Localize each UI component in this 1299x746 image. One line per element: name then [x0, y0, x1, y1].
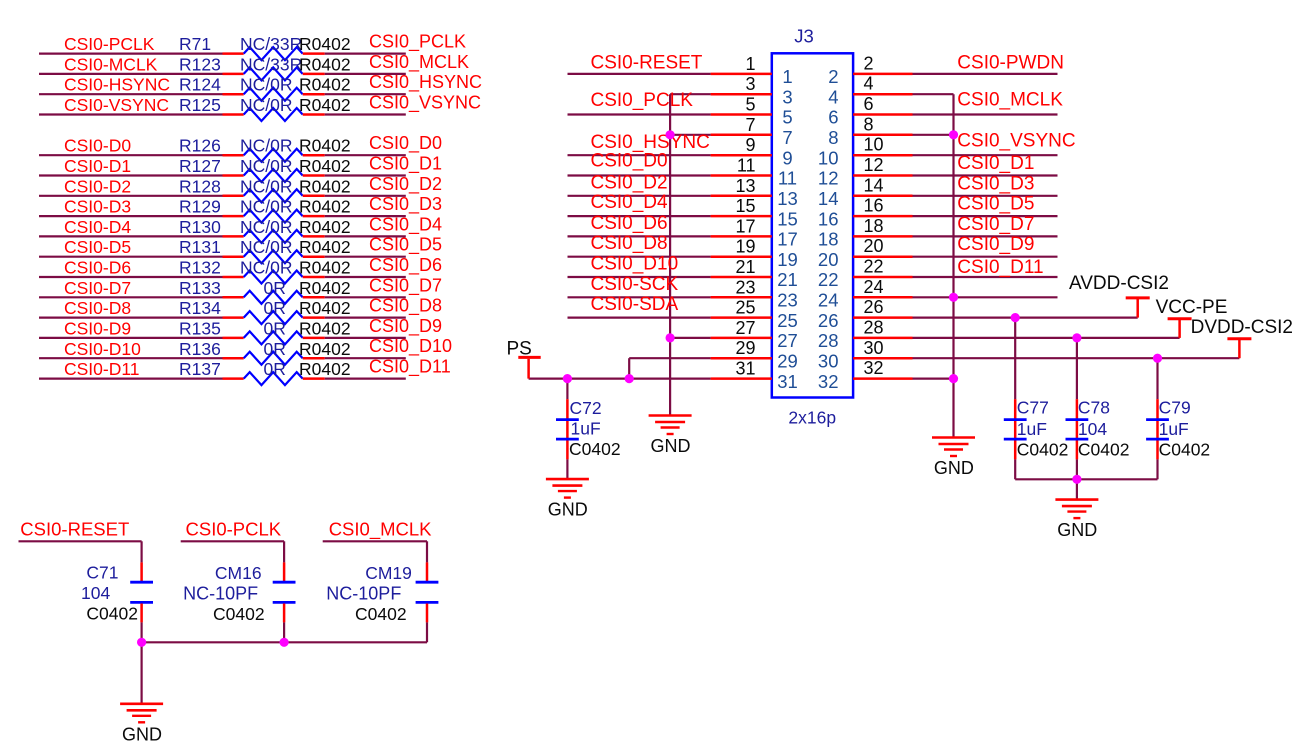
- svg-text:CSI0_D0: CSI0_D0: [369, 133, 442, 154]
- svg-text:NC/0R: NC/0R: [240, 95, 293, 115]
- svg-text:NC/0R: NC/0R: [240, 136, 293, 156]
- svg-text:29: 29: [735, 338, 755, 358]
- svg-text:CSI0-SDA: CSI0-SDA: [591, 294, 679, 315]
- svg-text:13: 13: [735, 176, 755, 196]
- svg-text:R129: R129: [179, 197, 221, 217]
- svg-text:6: 6: [864, 94, 874, 114]
- svg-text:CSI0-D8: CSI0-D8: [64, 298, 131, 318]
- svg-text:CSI0-HSYNC: CSI0-HSYNC: [64, 75, 170, 95]
- svg-text:CSI0-MCLK: CSI0-MCLK: [64, 54, 158, 74]
- svg-text:9: 9: [745, 135, 755, 155]
- svg-text:18: 18: [864, 216, 884, 236]
- svg-text:R0402: R0402: [299, 339, 351, 359]
- svg-text:29: 29: [777, 350, 798, 371]
- svg-text:CSI0_D7: CSI0_D7: [957, 214, 1034, 235]
- svg-text:CM16: CM16: [215, 563, 262, 583]
- svg-text:19: 19: [777, 249, 798, 270]
- svg-text:22: 22: [864, 257, 884, 277]
- svg-text:25: 25: [735, 298, 755, 318]
- svg-text:C0402: C0402: [569, 439, 621, 459]
- svg-text:R0402: R0402: [299, 237, 351, 257]
- svg-text:CSI0-PWDN: CSI0-PWDN: [957, 52, 1064, 73]
- svg-text:CSI0_D5: CSI0_D5: [369, 235, 442, 256]
- svg-text:NC/0R: NC/0R: [240, 237, 293, 257]
- svg-text:17: 17: [735, 216, 755, 236]
- svg-text:27: 27: [735, 318, 755, 338]
- svg-text:CSI0-D1: CSI0-D1: [64, 156, 131, 176]
- svg-text:R0402: R0402: [299, 298, 351, 318]
- svg-text:R130: R130: [179, 217, 221, 237]
- svg-text:27: 27: [777, 330, 798, 351]
- svg-text:12: 12: [864, 155, 884, 175]
- svg-text:CSI0-PCLK: CSI0-PCLK: [64, 34, 155, 54]
- svg-text:14: 14: [818, 188, 839, 209]
- svg-text:R128: R128: [179, 176, 221, 196]
- svg-text:1uF: 1uF: [571, 419, 601, 439]
- svg-text:30: 30: [818, 350, 839, 371]
- svg-text:C79: C79: [1159, 398, 1191, 418]
- svg-text:CSI0-D4: CSI0-D4: [64, 217, 131, 237]
- svg-text:VCC-PE: VCC-PE: [1156, 297, 1228, 318]
- svg-text:AVDD-CSI2: AVDD-CSI2: [1069, 273, 1169, 294]
- svg-text:GND: GND: [651, 436, 691, 456]
- svg-text:R0402: R0402: [299, 34, 351, 54]
- svg-text:18: 18: [818, 229, 839, 250]
- svg-text:12: 12: [818, 168, 839, 189]
- svg-text:GND: GND: [548, 500, 588, 520]
- svg-text:NC/0R: NC/0R: [240, 75, 293, 95]
- svg-text:CSI0_D1: CSI0_D1: [369, 154, 442, 175]
- svg-text:CSI0-RESET: CSI0-RESET: [20, 519, 129, 540]
- svg-text:31: 31: [777, 371, 798, 392]
- svg-text:21: 21: [735, 257, 755, 277]
- svg-text:32: 32: [818, 371, 839, 392]
- svg-text:CM19: CM19: [365, 563, 412, 583]
- svg-text:10: 10: [864, 135, 884, 155]
- svg-text:CSI0_VSYNC: CSI0_VSYNC: [957, 131, 1075, 152]
- svg-text:R0402: R0402: [299, 217, 351, 237]
- svg-text:0R: 0R: [264, 298, 286, 318]
- svg-text:C72: C72: [570, 398, 602, 418]
- svg-text:1uF: 1uF: [1017, 419, 1047, 439]
- svg-text:CSI0_D5: CSI0_D5: [957, 194, 1034, 215]
- svg-text:31: 31: [735, 359, 755, 379]
- svg-text:104: 104: [1078, 419, 1107, 439]
- svg-text:R132: R132: [179, 258, 221, 278]
- svg-text:R0402: R0402: [299, 318, 351, 338]
- svg-text:NC-10PF: NC-10PF: [183, 584, 258, 604]
- svg-text:NC/33R: NC/33R: [240, 34, 302, 54]
- svg-text:CSI0-D7: CSI0-D7: [64, 278, 131, 298]
- svg-text:24: 24: [864, 277, 884, 297]
- svg-text:CSI0_D4: CSI0_D4: [369, 214, 442, 235]
- svg-text:CSI0_D2: CSI0_D2: [591, 172, 668, 193]
- svg-text:R0402: R0402: [299, 75, 351, 95]
- svg-text:15: 15: [735, 196, 755, 216]
- svg-text:CSI0_D7: CSI0_D7: [369, 275, 442, 296]
- svg-text:3: 3: [782, 86, 792, 107]
- svg-text:CSI0_D3: CSI0_D3: [369, 194, 442, 215]
- svg-text:8: 8: [864, 114, 874, 134]
- svg-text:26: 26: [818, 310, 839, 331]
- svg-text:2x16p: 2x16p: [788, 408, 836, 428]
- svg-text:20: 20: [864, 236, 884, 256]
- svg-text:C77: C77: [1017, 398, 1049, 418]
- svg-text:C0402: C0402: [1159, 439, 1211, 459]
- svg-text:21: 21: [777, 269, 798, 290]
- svg-text:CSI0-SCK: CSI0-SCK: [591, 274, 679, 295]
- svg-text:R135: R135: [179, 318, 221, 338]
- svg-text:C71: C71: [86, 563, 118, 583]
- svg-text:C0402: C0402: [86, 603, 138, 623]
- svg-text:CSI0_D11: CSI0_D11: [957, 257, 1043, 278]
- svg-text:20: 20: [818, 249, 839, 270]
- svg-text:NC-10PF: NC-10PF: [326, 584, 401, 604]
- svg-text:CSI0_D11: CSI0_D11: [369, 357, 451, 378]
- svg-text:13: 13: [777, 188, 798, 209]
- svg-text:26: 26: [864, 297, 884, 317]
- svg-text:25: 25: [777, 310, 798, 331]
- svg-text:R131: R131: [179, 237, 221, 257]
- svg-text:CSI0_D10: CSI0_D10: [591, 254, 679, 275]
- svg-text:7: 7: [745, 115, 755, 135]
- svg-text:GND: GND: [1057, 520, 1097, 540]
- svg-text:R0402: R0402: [299, 258, 351, 278]
- svg-text:11: 11: [778, 168, 797, 189]
- svg-text:17: 17: [777, 229, 798, 250]
- svg-text:CSI0_D2: CSI0_D2: [369, 174, 442, 195]
- svg-text:CSI0_D8: CSI0_D8: [369, 296, 442, 317]
- svg-text:23: 23: [735, 277, 755, 297]
- svg-text:CSI0_D6: CSI0_D6: [591, 213, 668, 234]
- svg-text:R133: R133: [179, 278, 221, 298]
- svg-text:4: 4: [864, 74, 874, 94]
- svg-text:CSI0-D5: CSI0-D5: [64, 237, 131, 257]
- svg-text:2: 2: [864, 53, 874, 73]
- svg-text:32: 32: [864, 358, 884, 378]
- svg-text:CSI0_D3: CSI0_D3: [957, 173, 1034, 194]
- svg-text:9: 9: [782, 147, 792, 168]
- svg-text:10: 10: [818, 147, 839, 168]
- svg-text:NC/33R: NC/33R: [240, 54, 302, 74]
- svg-text:NC/0R: NC/0R: [240, 197, 293, 217]
- svg-text:R0402: R0402: [299, 136, 351, 156]
- svg-text:0R: 0R: [264, 339, 286, 359]
- svg-text:CSI0_D10: CSI0_D10: [369, 336, 452, 357]
- svg-text:CSI0_D1: CSI0_D1: [957, 153, 1034, 174]
- svg-text:PS: PS: [507, 339, 532, 360]
- svg-text:11: 11: [737, 156, 756, 176]
- svg-text:DVDD-CSI2: DVDD-CSI2: [1191, 317, 1293, 338]
- svg-text:CSI0_D8: CSI0_D8: [591, 233, 668, 254]
- svg-text:23: 23: [777, 290, 798, 311]
- svg-text:R127: R127: [179, 156, 221, 176]
- svg-text:R124: R124: [179, 75, 221, 95]
- svg-text:C0402: C0402: [1017, 439, 1069, 459]
- svg-text:C0402: C0402: [213, 604, 265, 624]
- svg-text:R0402: R0402: [299, 197, 351, 217]
- svg-text:CSI0-D11: CSI0-D11: [64, 359, 140, 379]
- svg-text:104: 104: [81, 583, 110, 603]
- svg-text:16: 16: [818, 208, 839, 229]
- svg-text:R0402: R0402: [299, 95, 351, 115]
- svg-text:C0402: C0402: [1078, 439, 1130, 459]
- svg-text:R0402: R0402: [299, 54, 351, 74]
- svg-text:15: 15: [777, 208, 798, 229]
- svg-text:2: 2: [828, 66, 838, 87]
- svg-text:1uF: 1uF: [1159, 419, 1189, 439]
- svg-text:16: 16: [864, 196, 884, 216]
- svg-text:CSI0_D6: CSI0_D6: [369, 255, 442, 276]
- svg-text:8: 8: [828, 127, 838, 148]
- svg-text:3: 3: [745, 74, 755, 94]
- svg-text:28: 28: [864, 317, 884, 337]
- svg-text:CSI0-D0: CSI0-D0: [64, 136, 131, 156]
- svg-text:CSI0_HSYNC: CSI0_HSYNC: [369, 72, 482, 93]
- svg-text:CSI0_MCLK: CSI0_MCLK: [369, 52, 469, 73]
- svg-text:1: 1: [745, 54, 755, 74]
- svg-text:22: 22: [818, 269, 839, 290]
- svg-text:CSI0_PCLK: CSI0_PCLK: [591, 90, 694, 111]
- svg-text:CSI0_PCLK: CSI0_PCLK: [369, 32, 466, 53]
- svg-text:CSI0_D9: CSI0_D9: [957, 234, 1034, 255]
- svg-text:19: 19: [735, 237, 755, 257]
- svg-text:R0402: R0402: [299, 278, 351, 298]
- svg-text:NC/0R: NC/0R: [240, 176, 293, 196]
- svg-text:0R: 0R: [264, 318, 286, 338]
- svg-text:CSI0_D0: CSI0_D0: [591, 151, 668, 172]
- svg-text:R0402: R0402: [299, 156, 351, 176]
- svg-text:GND: GND: [934, 458, 974, 478]
- svg-text:R71: R71: [179, 34, 211, 54]
- svg-text:CSI0_D9: CSI0_D9: [369, 316, 442, 337]
- svg-text:R137: R137: [179, 359, 221, 379]
- svg-text:R136: R136: [179, 339, 221, 359]
- svg-text:GND: GND: [122, 724, 162, 744]
- svg-text:CSI0-D6: CSI0-D6: [64, 258, 131, 278]
- svg-text:NC/0R: NC/0R: [240, 258, 293, 278]
- svg-text:CSI0-RESET: CSI0-RESET: [591, 52, 703, 73]
- svg-text:CSI0-D9: CSI0-D9: [64, 318, 131, 338]
- svg-text:NC/0R: NC/0R: [240, 217, 293, 237]
- svg-text:CSI0-D10: CSI0-D10: [64, 339, 141, 359]
- svg-text:J3: J3: [794, 26, 814, 47]
- svg-text:R134: R134: [179, 298, 221, 318]
- svg-text:0R: 0R: [264, 359, 286, 379]
- svg-text:R0402: R0402: [299, 359, 351, 379]
- svg-text:4: 4: [828, 86, 838, 107]
- svg-text:CSI0_MCLK: CSI0_MCLK: [957, 90, 1063, 111]
- svg-text:R126: R126: [179, 136, 221, 156]
- svg-text:R0402: R0402: [299, 176, 351, 196]
- svg-text:CSI0-D2: CSI0-D2: [64, 176, 131, 196]
- svg-text:CSI0-VSYNC: CSI0-VSYNC: [64, 95, 169, 115]
- svg-text:CSI0_MCLK: CSI0_MCLK: [329, 519, 432, 541]
- svg-text:CSI0-D3: CSI0-D3: [64, 197, 131, 217]
- svg-text:1: 1: [782, 66, 792, 87]
- svg-text:28: 28: [818, 330, 839, 351]
- svg-text:CSI0_D4: CSI0_D4: [591, 192, 669, 213]
- svg-text:0R: 0R: [264, 278, 286, 298]
- svg-text:14: 14: [864, 175, 884, 195]
- svg-text:5: 5: [782, 107, 792, 128]
- svg-text:CSI0_VSYNC: CSI0_VSYNC: [369, 93, 481, 114]
- svg-text:24: 24: [818, 290, 839, 311]
- svg-text:5: 5: [745, 95, 755, 115]
- svg-text:C78: C78: [1078, 398, 1110, 418]
- svg-text:7: 7: [782, 127, 792, 148]
- svg-text:CSI0-PCLK: CSI0-PCLK: [186, 519, 282, 540]
- svg-text:NC/0R: NC/0R: [240, 156, 293, 176]
- svg-text:6: 6: [828, 107, 838, 128]
- svg-text:C0402: C0402: [355, 604, 407, 624]
- svg-text:30: 30: [864, 338, 884, 358]
- svg-text:R125: R125: [179, 95, 221, 115]
- svg-text:R123: R123: [179, 54, 221, 74]
